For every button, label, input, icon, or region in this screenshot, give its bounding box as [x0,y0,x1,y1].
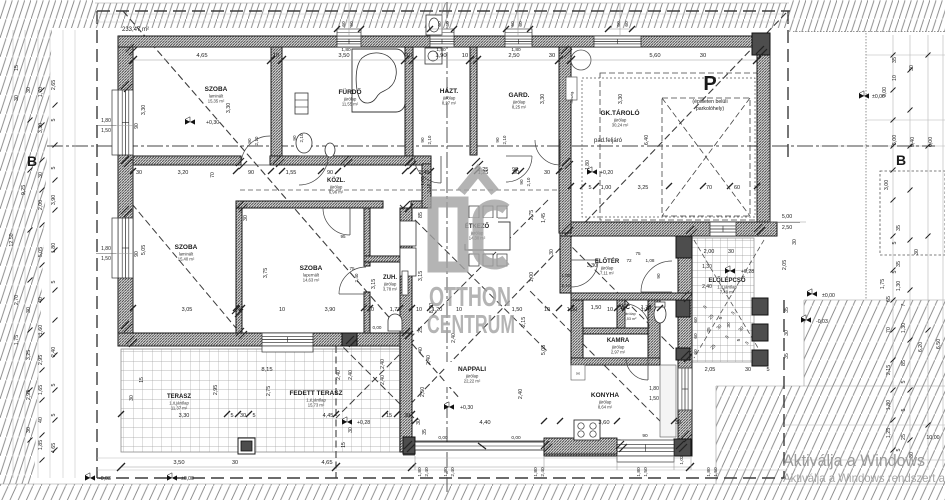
hatch boundary lines [95,2,789,4]
wall szoba3-zuh lower [364,292,370,333]
dashed diagonal fedett terasz 2 [336,340,414,418]
svg-text:3,20: 3,20 [178,170,189,176]
guide lines left dimension chains [12,30,14,478]
svg-text:15: 15 [341,442,347,448]
dashed diagonal fedett terasz 1 [336,340,414,418]
svg-text:2,50: 2,50 [420,387,426,397]
pier east entry S [676,300,690,317]
door furdo [299,156,328,185]
svg-text:1,80: 1,80 [886,400,892,410]
svg-text:1,80: 1,80 [341,47,351,53]
window szoba1 west 1,80 [118,90,133,155]
svg-text:5: 5 [588,185,591,191]
svg-text:60: 60 [693,349,699,355]
svg-text:2,40: 2,40 [424,467,430,477]
elevation mark +0,30 nappali [444,404,454,409]
svg-text:3,25: 3,25 [638,185,649,191]
svg-text:2,10: 2,10 [526,177,531,186]
elevation mark +0,30 szoba [185,119,195,124]
svg-text:2,10: 2,10 [427,135,432,144]
pier east kamra [676,348,690,360]
garage inner dotted rect [582,78,755,217]
svg-text:2,40: 2,40 [702,284,712,290]
svg-text:10: 10 [416,307,422,313]
zuh shower shelf [402,271,408,295]
svg-text:ELŐTÉR: ELŐTÉR [595,257,620,265]
wall corridor north w [133,156,241,165]
svg-text:65: 65 [886,296,892,302]
svg-text:70: 70 [210,172,216,178]
svg-text:0,00: 0,00 [511,435,521,441]
parking area dashed rect outer [600,73,757,220]
dim row tick marks terasz [118,411,124,417]
svg-text:1,90: 1,90 [435,53,446,59]
svg-text:+0,20: +0,20 [600,170,613,176]
svg-text:14,63 m²: 14,63 m² [303,278,320,283]
svg-text:1,75: 1,75 [14,335,20,345]
elevation mark -0,03 right [801,317,811,322]
svg-text:2,40: 2,40 [518,389,524,399]
svg-text:60: 60 [518,21,524,27]
terrace column pier [238,438,255,454]
svg-text:1,70: 1,70 [641,305,652,311]
dim row tick marks corridor [130,168,136,174]
svg-text:3,00: 3,00 [882,87,888,97]
svg-text:60: 60 [437,21,443,27]
nappali cabinet wall [400,221,416,246]
hatched neighbour strip top [95,3,789,28]
elevation mark top right [859,93,869,98]
wall corridor north e [270,156,431,165]
elevation mark +0,20 garage [587,169,597,174]
svg-text:1,80: 1,80 [533,467,539,477]
svg-text:3,50: 3,50 [338,53,349,59]
svg-text:1,80: 1,80 [649,386,659,392]
wall corridor south e [411,201,431,208]
svg-text:B: B [27,153,37,169]
svg-text:1,50: 1,50 [101,256,111,262]
hatched region bottom-right [716,300,945,484]
terasz/fedett terasz dashed divider [335,346,337,478]
exterior wall west [118,47,133,346]
svg-text:35: 35 [422,429,428,435]
svg-text:2,70: 2,70 [14,295,20,305]
watermark O letter [433,202,463,267]
elevation mark +0,28 terasz [342,419,352,424]
svg-text:P: P [703,73,716,95]
svg-text:30: 30 [549,53,555,59]
svg-text:15: 15 [386,413,392,419]
svg-text:11,55 m²: 11,55 m² [342,102,359,107]
wall szoba3-zuh upper [364,208,370,266]
wall hazt-gard [470,47,477,155]
sliding terrace door nappali [415,442,544,450]
wall zuh east [400,256,412,333]
svg-text:+0,28: +0,28 [357,420,370,426]
svg-text:hőszig.: hőszig. [569,91,574,104]
svg-text:SZOBA: SZOBA [205,86,228,93]
svg-text:GK.TÁROLÓ: GK.TÁROLÓ [601,108,640,117]
svg-text:10: 10 [273,53,279,59]
property boundary dashed right lower [783,300,785,478]
window hazt north 1,60 [430,36,454,47]
svg-text:(épületen belüli: (épületen belüli [692,99,727,105]
svg-text:15,73 m²: 15,73 m² [308,403,325,408]
svg-text:5,40: 5,40 [910,137,916,147]
roof hip dashed diagonal NW [123,11,460,399]
svg-text:90: 90 [247,138,252,144]
svg-text:1,50: 1,50 [591,305,602,311]
terrace tiled floor TERASZ + FEDETT TERASZ [121,349,412,452]
wall wc west [617,300,625,334]
svg-text:SZOBA: SZOBA [175,244,198,251]
svg-text:1,50: 1,50 [649,396,659,402]
door gard [506,156,532,182]
stair pier 2 [752,324,768,341]
dashed diagonal szoba2 [132,204,236,328]
svg-text:25: 25 [901,434,907,440]
svg-text:90: 90 [642,433,648,439]
svg-text:1,80: 1,80 [511,47,521,53]
svg-text:3,25: 3,25 [26,350,32,360]
svg-text:60: 60 [624,21,630,27]
svg-text:B: B [896,152,906,168]
svg-text:35: 35 [896,261,902,267]
hatched strip top-left corner [0,0,95,28]
svg-text:FÜRDŐ: FÜRDŐ [338,87,361,96]
svg-text:30: 30 [26,87,32,93]
door eloter-etkezo [571,260,598,287]
svg-text:30: 30 [38,172,44,178]
parking X diagonal 1 [662,98,750,216]
svg-text:pad.feljáró: pad.feljáró [594,138,623,144]
svg-text:60: 60 [734,185,740,191]
svg-text:7,11 m²: 7,11 m² [600,271,614,276]
svg-text:3,30: 3,30 [179,413,190,419]
wall eloter south [571,293,692,300]
dim row tick marks garage [568,183,574,189]
svg-text:8,25 m²: 8,25 m² [512,105,527,110]
svg-text:5,05: 5,05 [541,345,547,355]
svg-text:1,00: 1,00 [601,185,612,191]
terrace door head lines [403,440,544,442]
pier nappali SW [403,437,415,454]
svg-text:4,45: 4,45 [323,413,334,419]
window sill boxes top wall [337,29,361,36]
wall szoba2-szoba3 [236,208,242,333]
wall zuh north [364,256,412,262]
svg-text:5,00: 5,00 [892,135,898,145]
dim row tick marks szoba3 [130,305,136,311]
svg-text:3,90: 3,90 [51,195,57,205]
svg-text:70: 70 [886,327,892,333]
svg-text:Aktiválja a Windows: Aktiválja a Windows [783,451,925,470]
corner slash marks [121,81,129,89]
roof hip dashed diagonal NE [400,13,786,415]
svg-text:30: 30 [136,170,142,176]
svg-text:1,53 m²: 1,53 m² [624,317,638,321]
svg-text:WC: WC [620,305,631,311]
svg-text:2,40: 2,40 [348,370,354,380]
hazt sink [425,48,442,64]
stair pier 1 [752,298,768,315]
svg-text:-0,03: -0,03 [816,319,828,325]
bottom leader lines [414,456,416,470]
guide lines top [95,13,790,15]
svg-text:2,40: 2,40 [450,467,456,477]
corridor dashed attic line [240,189,562,191]
svg-text:1,02: 1,02 [679,455,685,465]
svg-text:5: 5 [252,413,255,419]
svg-text:30: 30 [792,239,798,245]
hatched strip bottom edge [0,484,945,500]
exterior wall south bedrooms [118,333,412,346]
svg-text:+0,30: +0,30 [460,405,473,411]
garage column circle [571,50,591,70]
furdo radiator [295,93,308,114]
svg-text:1,30: 1,30 [702,264,712,270]
svg-text:HÁZT.: HÁZT. [440,86,459,95]
wc toilet [654,305,666,323]
zuh washbasin [388,314,402,331]
svg-text:3,90: 3,90 [325,307,336,313]
svg-text:+0,30: +0,30 [206,120,219,126]
svg-text:CENTRUM: CENTRUM [427,309,515,339]
svg-text:75: 75 [349,266,355,271]
svg-text:1,80: 1,80 [636,467,642,477]
svg-text:1,50: 1,50 [643,467,649,477]
svg-text:Aktiválja a Windows rendszert: Aktiválja a Windows rendszert a [783,471,945,485]
svg-text:30: 30 [240,413,246,419]
wall kamra west [571,300,583,358]
svg-text:5,05: 5,05 [38,247,44,257]
svg-text:95: 95 [340,234,346,239]
svg-text:5,05: 5,05 [141,245,147,255]
pier east entry N [676,236,692,258]
svg-text:3,30: 3,30 [226,103,232,113]
etkezo white label box [458,218,498,244]
svg-text:22,22 m²: 22,22 m² [464,379,481,384]
svg-text:60: 60 [445,21,451,27]
svg-text:5,00: 5,00 [782,214,792,220]
svg-text:-0,03: -0,03 [99,476,111,482]
svg-text:1,30: 1,30 [896,281,902,291]
svg-text:25: 25 [418,327,424,333]
svg-text:90: 90 [248,170,254,176]
svg-text:2,10: 2,10 [562,283,571,288]
svg-text:30: 30 [909,65,915,71]
door garage [535,140,560,165]
elevation mark +-0,00 right [807,291,817,296]
svg-text:90: 90 [495,137,500,143]
svg-text:3,30: 3,30 [141,105,147,115]
dashed diagonal elolepcso 2 [694,240,764,358]
svg-text:1,50: 1,50 [101,128,111,134]
svg-text:2,40: 2,40 [380,359,386,369]
svg-text:5: 5 [766,367,769,373]
svg-text:2,15: 2,15 [521,317,527,327]
svg-text:8,15: 8,15 [261,367,272,373]
svg-text:1,45: 1,45 [541,213,547,223]
right chain tick marks [891,53,896,58]
svg-text:5: 5 [230,413,233,419]
dashed diagonal eloter [565,240,690,365]
property boundary dashed top [97,10,790,12]
wall corridor south [236,201,383,208]
svg-text:2,00: 2,00 [704,249,715,255]
corner pier NE [752,33,770,55]
svg-text:60: 60 [349,21,355,27]
svg-text:11,37 m²: 11,37 m² [171,406,188,411]
elevation mark +0,28 elolepcso [725,268,735,273]
roof dashed diagonal etkezo 1 [400,205,548,352]
chimney top [426,15,442,35]
svg-text:30: 30 [728,249,734,255]
svg-text:0,00: 0,00 [438,435,448,441]
window axis leader lines top [348,3,350,36]
svg-text:60: 60 [616,21,622,27]
svg-text:3,15: 3,15 [418,271,424,281]
wall szoba1-furdo [271,47,282,156]
window konyha east [678,368,692,410]
svg-text:4,40: 4,40 [479,420,490,426]
svg-text:35: 35 [896,225,902,231]
elolepcso step tiles [692,238,754,362]
svg-text:4,65: 4,65 [196,53,207,59]
watermark OC logo roof chevron [427,171,515,339]
etkezo dining table [465,222,510,250]
svg-text:1,65: 1,65 [38,385,44,395]
svg-text:8,27 m²: 8,27 m² [442,101,457,106]
property boundary dashed right upper [787,11,789,158]
corner pier SE [674,439,691,456]
elolepcso upper tiles [571,300,579,362]
garage right dims 5,00 2,50 [770,221,806,223]
svg-text:H: H [576,371,579,376]
svg-text:GARD.: GARD. [509,92,530,99]
svg-text:5: 5 [736,338,742,341]
exterior wall east house [678,236,692,456]
svg-text:6,00: 6,00 [928,137,934,147]
svg-text:FEDETT TERASZ: FEDETT TERASZ [289,390,342,397]
right horizontal connector lines [866,54,945,56]
svg-text:2,50: 2,50 [508,53,519,59]
svg-text:5: 5 [892,241,898,244]
svg-text:30: 30 [348,427,354,433]
svg-text:3,15: 3,15 [371,279,377,289]
svg-text:2,45: 2,45 [419,170,430,176]
svg-text:30: 30 [675,420,681,426]
svg-text:1,30: 1,30 [901,323,907,333]
elevation mark -0,03 left [85,475,95,480]
guide lines right dimension chains [892,35,894,470]
wall etkezo-eloter [560,236,571,293]
svg-text:±0,00: ±0,00 [181,476,194,482]
svg-text:30: 30 [914,249,920,255]
svg-text:2,75: 2,75 [529,210,535,220]
svg-text:60: 60 [693,317,699,323]
site dotted line right [865,33,867,300]
dashed diagonal konyha hip [530,291,691,452]
svg-text:2,65: 2,65 [51,80,57,90]
svg-text:30,24 m²: 30,24 m² [612,123,629,128]
svg-text:60: 60 [341,21,347,27]
svg-text:90: 90 [134,251,140,257]
svg-text:70: 70 [706,185,712,191]
svg-text:10: 10 [406,53,412,59]
fedett terasz tiles upper part [344,346,400,349]
svg-text:2,00: 2,00 [38,200,44,210]
wall kozl east niche [422,164,431,208]
window garage south [710,222,736,236]
svg-text:TERASZ: TERASZ [167,394,191,400]
svg-text:1,00: 1,00 [529,272,535,282]
wall zuh east upper [400,208,412,256]
exterior wall west nappali [400,333,412,452]
svg-text:2,05: 2,05 [705,367,716,373]
elevation mark +-0,00 left [167,475,177,480]
svg-text:2,97 m²: 2,97 m² [611,350,626,355]
window sill box konyha south [617,456,674,462]
wall furdo-hazt [405,47,413,164]
svg-text:1,80: 1,80 [706,467,712,477]
svg-text:10: 10 [607,307,613,313]
window sill boxes left wall [112,90,118,155]
svg-text:5: 5 [51,413,57,416]
svg-text:3,30: 3,30 [540,94,546,104]
svg-text:10,00: 10,00 [926,435,939,441]
wall garage south [560,222,777,236]
svg-text:72: 72 [626,258,632,263]
svg-text:2,15: 2,15 [886,365,892,375]
svg-text:90: 90 [134,123,140,129]
window sill box south szoba3 [262,346,313,352]
svg-text:SZOBA: SZOBA [300,265,323,272]
door wc [625,304,649,328]
svg-text:ELŐLÉPCSŐ: ELŐLÉPCSŐ [708,276,745,284]
svg-text:2,10: 2,10 [254,136,259,145]
svg-text:3,05: 3,05 [182,307,193,313]
svg-text:5: 5 [901,408,907,411]
svg-text:1,75: 1,75 [880,279,886,289]
parking X diagonal 2 [662,98,750,216]
hatched neighbour strip top-right [789,0,945,32]
svg-text:1,25: 1,25 [886,428,892,438]
section line B-B horizontal [47,145,935,147]
window gard north 1,80 [505,36,532,47]
svg-text:1,50: 1,50 [713,467,719,477]
door hazt [414,156,441,183]
guide lines bottom [97,457,690,459]
svg-text:9,25: 9,25 [21,185,27,195]
svg-text:2,50: 2,50 [782,225,792,231]
svg-text:3,75: 3,75 [263,268,269,278]
dashed diagonal elolepcso 1 [694,240,764,358]
dim row tick marks nappali [412,418,418,424]
wall wc-kamra east [648,300,660,365]
svg-text:15: 15 [139,377,145,383]
svg-text:±0,00: ±0,00 [822,293,835,299]
svg-text:15,40 m²: 15,40 m² [178,257,195,262]
svg-text:30: 30 [232,460,238,466]
dimension row bottom outside [121,466,690,468]
svg-text:1,80: 1,80 [101,246,111,252]
svg-text:30: 30 [549,249,555,255]
svg-text:3,50: 3,50 [173,460,184,466]
svg-text:5: 5 [51,383,57,386]
svg-text:30: 30 [129,395,135,401]
svg-text:90: 90 [519,179,524,185]
